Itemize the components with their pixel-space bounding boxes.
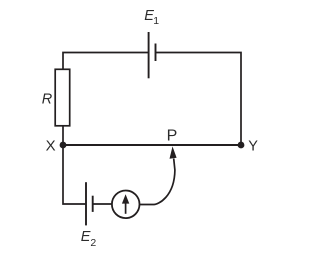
galvanometer needle arrow <box>125 202 127 214</box>
svg-text:Y: Y <box>248 138 258 154</box>
jockey arrowhead at P <box>170 146 177 158</box>
wire resistor to node X <box>62 126 64 145</box>
wire galvanometer to jockey (curved lead) <box>140 159 175 205</box>
wire XY (potentiometer wire) <box>63 144 241 146</box>
svg-text:2: 2 <box>90 237 96 249</box>
node Y <box>238 142 245 149</box>
wire E2 to galvanometer <box>93 203 112 205</box>
battery E1 long plate <box>148 32 150 78</box>
battery E1 short plate <box>155 44 157 62</box>
svg-text:P: P <box>167 128 178 145</box>
svg-text:1: 1 <box>153 15 159 27</box>
galvanometer G (circle with arrow) <box>112 191 140 219</box>
svg-text:X: X <box>46 137 56 154</box>
svg-text:R: R <box>42 91 53 107</box>
wire top-left (top rail from left corner to E1) <box>63 53 149 70</box>
svg-text:E: E <box>81 229 91 245</box>
battery E2 short plate <box>92 196 94 212</box>
node X <box>60 142 67 149</box>
resistor R <box>55 69 69 126</box>
battery E2 long plate <box>85 182 87 225</box>
wire X down-left to E2 <box>63 145 86 204</box>
wire top-right (top rail from E1 to right corner, down to Y) <box>156 53 242 146</box>
